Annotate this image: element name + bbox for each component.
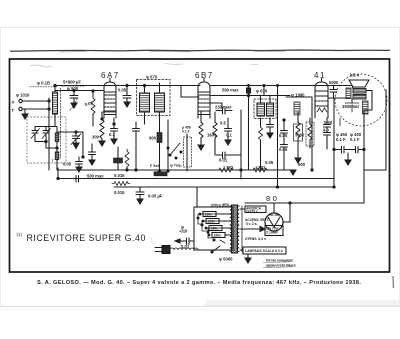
svg-text:1 MΩ: 1 MΩ <box>223 165 234 170</box>
svg-text:5+800 μF: 5+800 μF <box>63 80 81 85</box>
svg-text:0.05: 0.05 <box>63 162 72 167</box>
svg-text:5000: 5000 <box>329 80 339 85</box>
svg-text:φ 1980: φ 1980 <box>291 93 305 98</box>
svg-text:6A7: 6A7 <box>101 71 120 80</box>
svg-text:S. A. GELOSO. — Mod. G. 40. –: S. A. GELOSO. — Mod. G. 40. – Super 4 va… <box>37 280 361 286</box>
svg-text:LAMPADA SCALA 6,3 v.: LAMPADA SCALA 6,3 v. <box>245 249 283 253</box>
svg-text:0.01: 0.01 <box>181 244 190 249</box>
svg-text:4.0: 4.0 <box>323 128 329 133</box>
svg-text:0.05: 0.05 <box>265 160 274 165</box>
svg-text:φ 500: φ 500 <box>67 86 79 91</box>
svg-text:110v: 110v <box>205 213 212 217</box>
svg-text:2x320 v.: 2x320 v. <box>246 209 258 213</box>
svg-text:140v: 140v <box>211 227 219 231</box>
svg-text:0.1: 0.1 <box>226 133 232 138</box>
svg-text:6B7: 6B7 <box>195 71 214 80</box>
svg-text:2 LAMP.: 2 LAMP. <box>266 231 279 235</box>
svg-text:0.05 μF: 0.05 μF <box>148 194 163 199</box>
svg-text:RICEVITORE SUPER G.40: RICEVITORE SUPER G.40 <box>27 233 146 243</box>
svg-text:φ 1010: φ 1010 <box>16 93 30 98</box>
svg-text:0.1: 0.1 <box>109 132 115 137</box>
svg-text:circa 950: circa 950 <box>211 202 230 207</box>
svg-text:UTENS. 6,3 v.: UTENS. 6,3 v. <box>245 237 267 241</box>
svg-text:0.05: 0.05 <box>118 88 127 93</box>
svg-text:φ 675: φ 675 <box>146 75 158 80</box>
svg-text:kΩ 4: kΩ 4 <box>350 73 360 78</box>
svg-text:T: T <box>12 108 15 113</box>
svg-text:41: 41 <box>314 71 326 80</box>
svg-text:900: 900 <box>149 136 157 141</box>
svg-text:0.1 F: 0.1 F <box>182 130 190 134</box>
svg-text:232 max: 232 max <box>215 105 232 110</box>
svg-text:A: A <box>12 100 15 105</box>
svg-text:0.015: 0.015 <box>114 190 125 195</box>
svg-text:7: 7 <box>52 159 54 163</box>
svg-text:1 MΩ: 1 MΩ <box>255 165 266 170</box>
svg-text:590 max: 590 max <box>222 88 239 93</box>
svg-text:-010: -010 <box>179 229 188 234</box>
svg-text:0.05: 0.05 <box>279 133 288 138</box>
svg-text:3600: 3600 <box>295 133 305 138</box>
svg-text:300: 300 <box>92 135 100 140</box>
svg-text:φ 0.1B: φ 0.1B <box>37 81 50 86</box>
svg-text:3500/twz: 3500/twz <box>342 104 359 109</box>
svg-text:0.05: 0.05 <box>279 147 288 152</box>
svg-text:φ 676: φ 676 <box>256 89 268 94</box>
svg-text:0.1 F: 0.1 F <box>336 137 346 142</box>
svg-text:F 5x8: F 5x8 <box>150 164 160 168</box>
svg-text:1600: 1600 <box>207 133 217 138</box>
svg-text:125v: 125v <box>208 220 216 224</box>
svg-text:(1): (1) <box>17 232 23 237</box>
svg-text:0.1 F: 0.1 F <box>350 137 360 142</box>
svg-text:0.50: 0.50 <box>324 120 333 125</box>
svg-text:160v: 160v <box>214 234 222 238</box>
svg-text:80: 80 <box>266 194 279 203</box>
svg-text:0.015: 0.015 <box>114 173 125 178</box>
svg-text:0.5: 0.5 <box>220 121 226 126</box>
svg-text:5 v. 2 a.: 5 v. 2 a. <box>246 222 257 226</box>
svg-text:φ 7mμ: φ 7mμ <box>170 164 182 168</box>
svg-text:φ 5000: φ 5000 <box>219 257 233 262</box>
svg-text:500: 500 <box>298 162 306 167</box>
svg-text:0.01: 0.01 <box>219 158 228 163</box>
svg-text:500 max: 500 max <box>87 174 104 179</box>
